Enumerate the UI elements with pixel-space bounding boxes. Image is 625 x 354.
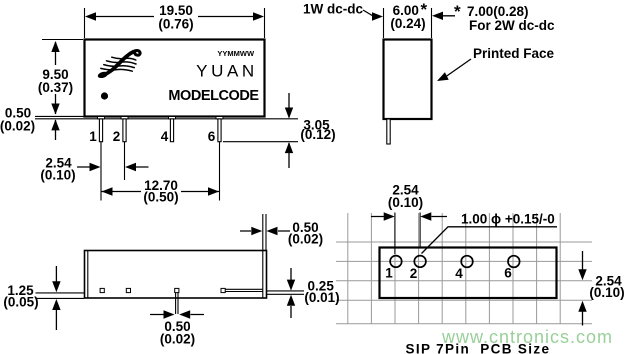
svg-text:4: 4 (161, 129, 169, 144)
svg-text:6: 6 (208, 129, 216, 144)
svg-text:(0.02): (0.02) (160, 332, 195, 347)
svg-text:Printed Face: Printed Face (473, 46, 555, 61)
svg-text:1.00 ϕ +0.15/-0: 1.00 ϕ +0.15/-0 (461, 212, 555, 227)
svg-text:(0.76): (0.76) (158, 17, 193, 32)
svg-text:(0.50): (0.50) (143, 190, 178, 205)
svg-text:(0.10): (0.10) (388, 195, 423, 210)
svg-text:(0.10): (0.10) (40, 167, 75, 182)
svg-text:YYMMWW: YYMMWW (217, 49, 255, 58)
svg-text:1W dc-dc: 1W dc-dc (303, 2, 363, 17)
svg-text:(0.05): (0.05) (3, 295, 38, 310)
svg-text:For 2W dc-dc: For 2W dc-dc (469, 18, 555, 33)
svg-text:(0.37): (0.37) (38, 80, 73, 95)
svg-text:(0.12): (0.12) (300, 127, 335, 142)
svg-text:4: 4 (455, 266, 463, 281)
svg-text:MODELCODE: MODELCODE (168, 88, 259, 104)
svg-text:*: * (454, 2, 461, 21)
svg-text:SIP 7Pin PCB Size: SIP 7Pin PCB Size (406, 342, 551, 354)
svg-text:6: 6 (504, 266, 512, 281)
svg-text:(0.01): (0.01) (304, 290, 339, 305)
svg-text:(0.02): (0.02) (0, 119, 35, 134)
svg-text:2: 2 (113, 129, 121, 144)
svg-text:YUAN: YUAN (196, 62, 258, 81)
svg-text:(0.02): (0.02) (288, 232, 323, 247)
svg-text:*: * (421, 0, 428, 19)
svg-text:1: 1 (385, 266, 393, 281)
svg-text:(0.10): (0.10) (589, 285, 624, 300)
svg-text:1: 1 (89, 129, 97, 144)
svg-text:7.00(0.28): 7.00(0.28) (467, 4, 529, 19)
svg-text:2: 2 (410, 266, 418, 281)
